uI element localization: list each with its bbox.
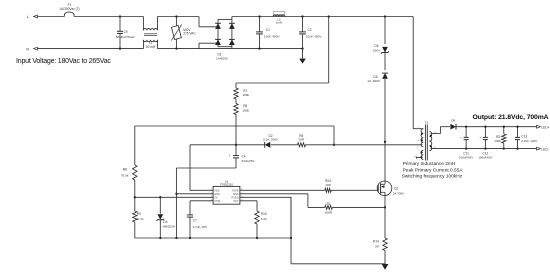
svg-text:R10: R10 [261, 212, 267, 216]
svg-text:33uF/25V: 33uF/25V [242, 159, 255, 163]
svg-text:11.1k: 11.1k [136, 217, 144, 221]
svg-text:70.5k: 70.5k [121, 173, 129, 177]
svg-text:275 VAC: 275 VAC [183, 32, 196, 36]
svg-text:R8: R8 [123, 168, 127, 172]
svg-text:20R: 20R [299, 137, 305, 141]
svg-text:OUT: OUT [233, 200, 239, 203]
svg-text:1mH: 1mH [276, 21, 282, 25]
svg-text:10nF, 400V: 10nF, 400V [306, 34, 323, 38]
svg-text:N: N [26, 46, 29, 51]
svg-text:1A, 600V: 1A, 600V [367, 79, 381, 83]
svg-text:10R: 10R [325, 183, 331, 187]
svg-text:D4: D4 [163, 220, 167, 224]
svg-text:2.2uF, 100V: 2.2uF, 100V [521, 139, 537, 143]
svg-text:C7: C7 [193, 219, 197, 223]
svg-text:D8: D8 [451, 119, 455, 123]
svg-text:+: + [229, 154, 231, 158]
svg-text:CTRL: CTRL [214, 200, 221, 203]
svg-text:0.2A, 200V: 0.2A, 200V [263, 137, 278, 141]
svg-text:+: + [479, 135, 481, 139]
svg-text:R14: R14 [373, 240, 379, 244]
svg-text:68NF/275Vac: 68NF/275Vac [116, 35, 135, 39]
svg-text:LED-: LED- [541, 147, 549, 151]
svg-text:C1: C1 [266, 28, 270, 32]
svg-text:10nF, 400V: 10nF, 400V [264, 34, 281, 38]
svg-text:165k: 165k [242, 108, 249, 112]
svg-text:6.2k: 6.2k [261, 217, 267, 221]
svg-text:+: + [460, 135, 462, 139]
svg-text:200V: 200V [373, 48, 381, 52]
svg-text:Q1: Q1 [394, 186, 398, 190]
svg-text:C2: C2 [308, 28, 312, 32]
svg-text:600R: 600R [325, 210, 333, 214]
svg-text:Primary Inductance 2mH: Primary Inductance 2mH [403, 161, 456, 167]
svg-text:Peak Primary Current 0.55A: Peak Primary Current 0.55A [403, 167, 464, 173]
svg-text:1A/600V: 1A/600V [216, 57, 229, 61]
svg-text:2A 700V: 2A 700V [393, 192, 404, 196]
svg-text:TPS92210: TPS92210 [220, 183, 234, 187]
svg-text:1A/300Vac (T): 1A/300Vac (T) [59, 7, 79, 11]
svg-text:30 mH: 30 mH [146, 45, 156, 49]
svg-text:100uF/63V: 100uF/63V [478, 156, 492, 160]
svg-text:R9: R9 [137, 212, 141, 216]
svg-text:T1: T1 [425, 121, 429, 125]
svg-text:Output: 21.8Vdc, 700mA: Output: 21.8Vdc, 700mA [473, 114, 549, 121]
svg-text:R1: R1 [326, 202, 330, 206]
svg-text:4.7uF, 25V: 4.7uF, 25V [193, 225, 207, 229]
svg-text:165k: 165k [242, 93, 249, 97]
svg-text:Switching frequency 100kHz: Switching frequency 100kHz [402, 174, 463, 180]
svg-text:100uF/63V: 100uF/63V [459, 156, 473, 160]
svg-text:Input Voltage: 180Vac to 265Va: Input Voltage: 180Vac to 265Vac [16, 58, 111, 65]
svg-text:C9: C9 [124, 30, 128, 34]
svg-text:100k: 100k [494, 139, 501, 143]
svg-text:MM3Z5V6: MM3Z5V6 [163, 225, 176, 229]
svg-text:LED+: LED+ [541, 125, 549, 129]
